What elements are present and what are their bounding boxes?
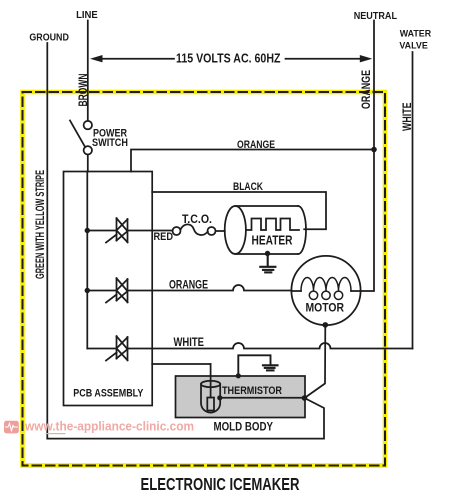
svg-text:BLACK: BLACK	[233, 181, 263, 193]
svg-text:ELECTRONIC ICEMAKER: ELECTRONIC ICEMAKER	[141, 474, 300, 494]
svg-text:RED: RED	[154, 231, 174, 243]
icemaker boundary yellow dashed border	[23, 92, 386, 466]
PCB assembly box U1	[64, 172, 153, 406]
triac Q1	[87, 218, 127, 242]
PCB internal feed wire	[86, 172, 88, 349]
svg-text:WATER: WATER	[400, 29, 432, 39]
ground below heater	[260, 253, 275, 272]
junction dot on mold box top	[236, 373, 241, 378]
wire ORANGE mid: triac2 to motor (with hop)	[128, 285, 292, 291]
wire BLACK: PCB to heater right end	[152, 192, 326, 229]
wire WHITE mid: triac3 to water valve (hops at ground riser and motor wire)	[128, 343, 413, 348]
wire LINE vertical (brown)	[87, 21, 89, 121]
mold body box (grey)	[176, 376, 306, 418]
svg-text:WHITE: WHITE	[400, 103, 414, 132]
junction dot on neutral	[371, 147, 377, 153]
junction dot triac1 feed	[85, 228, 90, 233]
junction dot mold box edge	[302, 395, 308, 401]
svg-text:PCB ASSEMBLY: PCB ASSEMBLY	[73, 388, 144, 400]
wire RED triac1 to TCO	[128, 230, 173, 232]
wire WATER VALVE vertical (white)	[412, 52, 414, 349]
junction dot triac2 feed	[85, 288, 90, 293]
wire GROUND vertical (green w/ yellow stripe)	[46, 43, 48, 439]
wire ground return: junction down and left to green ground wire	[47, 398, 324, 439]
svg-text:BROWN: BROWN	[76, 74, 90, 107]
svg-text:GREEN WITH YELLOW STRIPE: GREEN WITH YELLOW STRIPE	[33, 170, 47, 279]
triac Q2	[87, 278, 127, 302]
power switch SW1	[84, 121, 92, 129]
svg-text:MOTOR: MOTOR	[306, 301, 345, 315]
wire thermistor left lead to PCB	[152, 363, 210, 365]
wire motor to thermistor junction	[305, 325, 326, 398]
junction dot heater bottom	[265, 251, 270, 256]
svg-text:ORANGE: ORANGE	[237, 139, 275, 151]
triac Q3	[87, 336, 127, 360]
junction dot motor bottom	[323, 322, 329, 328]
wire NEUTRAL vertical (orange)	[361, 21, 374, 292]
svg-text:GROUND: GROUND	[29, 33, 69, 44]
wire TCO to heater	[216, 230, 225, 232]
svg-text:NEUTRAL: NEUTRAL	[354, 11, 397, 22]
svg-text:THERMISTOR: THERMISTOR	[222, 385, 282, 397]
svg-text:VALVE: VALVE	[399, 40, 427, 50]
svg-text:115 VOLTS AC. 60HZ: 115 VOLTS AC. 60HZ	[176, 51, 281, 65]
wire thermistor right lead to junction	[220, 397, 305, 399]
heater R1	[225, 206, 306, 254]
svg-text:www.the-appliance-clinic.com: www.the-appliance-clinic.com	[24, 419, 194, 434]
wire ORANGE top: PCB to neutral	[131, 150, 374, 172]
svg-text:MOLD BODY: MOLD BODY	[214, 419, 274, 433]
watermark	[4, 419, 194, 435]
thermistor RT1	[201, 364, 282, 413]
svg-text:HEATER: HEATER	[252, 232, 293, 247]
svg-text:ORANGE: ORANGE	[169, 279, 208, 291]
svg-text:LINE: LINE	[76, 10, 98, 21]
junction dot thermistor can	[217, 395, 222, 400]
mold body ground branch	[238, 355, 277, 376]
svg-text:ORANGE: ORANGE	[359, 70, 373, 109]
arrow to neutral wire	[286, 58, 362, 60]
svg-text:SWITCH: SWITCH	[92, 137, 128, 149]
motor M1	[291, 256, 360, 325]
wire switch to PCB	[87, 155, 89, 172]
svg-text:WHITE: WHITE	[174, 335, 205, 349]
arrow to line wire	[102, 58, 175, 60]
